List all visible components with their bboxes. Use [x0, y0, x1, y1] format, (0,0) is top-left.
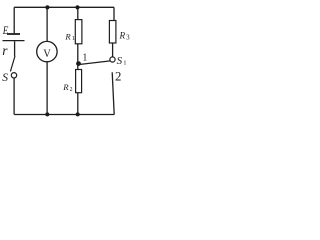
svg-text:V: V: [43, 46, 51, 60]
svg-text:2: 2: [70, 87, 73, 93]
svg-text:1: 1: [82, 52, 87, 63]
svg-text:3: 3: [126, 34, 130, 42]
svg-text:S: S: [117, 55, 123, 67]
svg-text:R: R: [62, 82, 69, 92]
svg-text:R: R: [64, 31, 71, 41]
svg-text:S: S: [2, 72, 8, 84]
svg-text:r: r: [2, 43, 8, 58]
svg-text:E: E: [2, 25, 9, 37]
svg-text:1: 1: [72, 35, 75, 42]
svg-text:1: 1: [123, 60, 126, 67]
svg-text:2: 2: [115, 69, 121, 83]
svg-text:R: R: [119, 30, 126, 40]
